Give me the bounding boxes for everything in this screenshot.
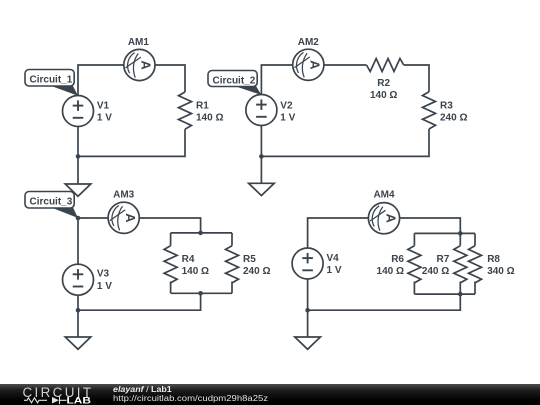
svg-text:240 Ω: 240 Ω: [440, 113, 467, 124]
svg-text:R8: R8: [487, 254, 500, 265]
svg-text:240 Ω: 240 Ω: [422, 266, 449, 277]
svg-text:1 V: 1 V: [97, 281, 112, 292]
wire node Circuit_3 to AM3 to rail: [78, 218, 201, 233]
svg-text:1 V: 1 V: [327, 265, 342, 276]
wire R8 top stub: [474, 233, 476, 245]
resistor R4: [164, 246, 177, 283]
wire V3 bottom to ground: [77, 295, 79, 337]
svg-text:140 Ω: 140 Ω: [196, 113, 223, 124]
CircuitLab logo: [0, 384, 100, 405]
wire R4 top stub: [170, 233, 172, 246]
svg-text:AM1: AM1: [128, 37, 150, 48]
ground circuit 2: [249, 183, 275, 195]
junction dot circuit 3 top rail: [198, 231, 203, 236]
ground circuit 1: [65, 184, 91, 196]
wire V1 top to AM1 to R1 top: [78, 65, 185, 96]
svg-text:Circuit_3: Circuit_3: [30, 196, 73, 207]
svg-text:LAB: LAB: [67, 395, 92, 405]
junction dot circuit 4 ground: [305, 308, 310, 313]
wire V1 bottom to ground: [77, 127, 79, 185]
wire rail to bottom wire to V3: [78, 293, 201, 310]
svg-text:R7: R7: [437, 254, 450, 265]
wire R4 bottom stub: [170, 282, 172, 294]
svg-text:140 Ω: 140 Ω: [182, 266, 209, 277]
wire bottom rail R4 R5: [171, 292, 232, 294]
wire V2 bottom to ground: [260, 126, 262, 185]
svg-text:R1: R1: [196, 101, 209, 112]
svg-text:340 Ω: 340 Ω: [487, 266, 514, 277]
resistor R8: [469, 246, 482, 283]
wire node to V3 top: [77, 218, 79, 264]
junction dot circuit 4 bottom rail: [458, 292, 463, 297]
footer url: [113, 394, 268, 403]
wire V4 bottom to ground: [307, 279, 309, 337]
resistor R2: [367, 59, 404, 72]
node flag Circuit_1: [25, 70, 78, 96]
wire R5 top stub: [231, 233, 233, 246]
wire R1 bottom to bottom rail to V1: [78, 129, 185, 156]
svg-text:Circuit_2: Circuit_2: [213, 75, 256, 86]
svg-text:V4: V4: [327, 253, 340, 264]
junction node Circuit_3: [76, 216, 81, 221]
ground circuit 3: [65, 337, 91, 349]
svg-text:R4: R4: [182, 254, 195, 265]
wire R3 bottom to bottom rail to V2: [261, 129, 429, 156]
svg-text:R6: R6: [391, 254, 404, 265]
wire R5 bottom stub: [231, 282, 233, 294]
wire top rail R4 R5: [171, 232, 232, 234]
wire R7 top stub: [459, 233, 461, 245]
svg-text:1 V: 1 V: [280, 112, 295, 123]
wire top rail R6 R7 R8: [414, 232, 475, 234]
voltage source V1: [63, 96, 94, 127]
voltage source V3: [63, 264, 94, 295]
junction dot circuit 4 top rail: [458, 231, 463, 236]
svg-text:AM3: AM3: [113, 190, 135, 201]
svg-text:Circuit_1: Circuit_1: [30, 74, 73, 85]
footer credit line: [113, 385, 172, 394]
svg-text:V3: V3: [97, 269, 110, 280]
svg-text:140 Ω: 140 Ω: [370, 90, 397, 101]
svg-text:R2: R2: [377, 78, 390, 89]
svg-text:V2: V2: [280, 100, 293, 111]
junction dot circuit 3 ground: [76, 308, 81, 313]
wire R7 bottom stub: [459, 282, 461, 295]
svg-text:240 Ω: 240 Ω: [243, 266, 270, 277]
resistor R7: [454, 246, 467, 283]
node flag Circuit_3: [25, 192, 78, 219]
ammeter AM4: [368, 203, 399, 234]
ammeter AM1: [124, 49, 155, 80]
svg-text:R5: R5: [243, 254, 256, 265]
junction dot circuit 3 bottom rail: [198, 291, 203, 296]
ammeter AM3: [108, 202, 139, 233]
wire R8 bottom stub: [474, 282, 476, 295]
junction dot circuit 1: [76, 154, 81, 159]
wire R6 top stub: [413, 233, 415, 245]
footer bar: [0, 384, 540, 405]
wire rail to bottom wire to V4: [308, 294, 461, 310]
resistor R5: [226, 246, 239, 283]
wire R6 bottom stub: [413, 282, 415, 295]
resistor R6: [408, 246, 421, 283]
resistor R1: [179, 92, 192, 129]
voltage source V4: [292, 248, 323, 279]
svg-text:AM4: AM4: [373, 190, 395, 201]
wire V2 top to AM2 to R2: [261, 65, 366, 95]
svg-text:140 Ω: 140 Ω: [377, 266, 404, 277]
ammeter AM2: [293, 49, 324, 80]
svg-text:R3: R3: [440, 101, 453, 112]
wire bottom rail R6 R7 R8: [414, 293, 475, 295]
ground circuit 4: [295, 337, 321, 349]
svg-text:V1: V1: [97, 101, 110, 112]
svg-text:1 V: 1 V: [97, 113, 112, 124]
wire R2 to corner to R3 top: [404, 65, 429, 92]
svg-text:AM2: AM2: [298, 37, 320, 48]
voltage source V2: [246, 95, 277, 126]
wire V4 top to AM4 to rail: [308, 218, 461, 248]
node flag Circuit_2: [208, 71, 261, 96]
resistor R3: [423, 92, 436, 129]
junction dot circuit 2: [259, 154, 264, 159]
